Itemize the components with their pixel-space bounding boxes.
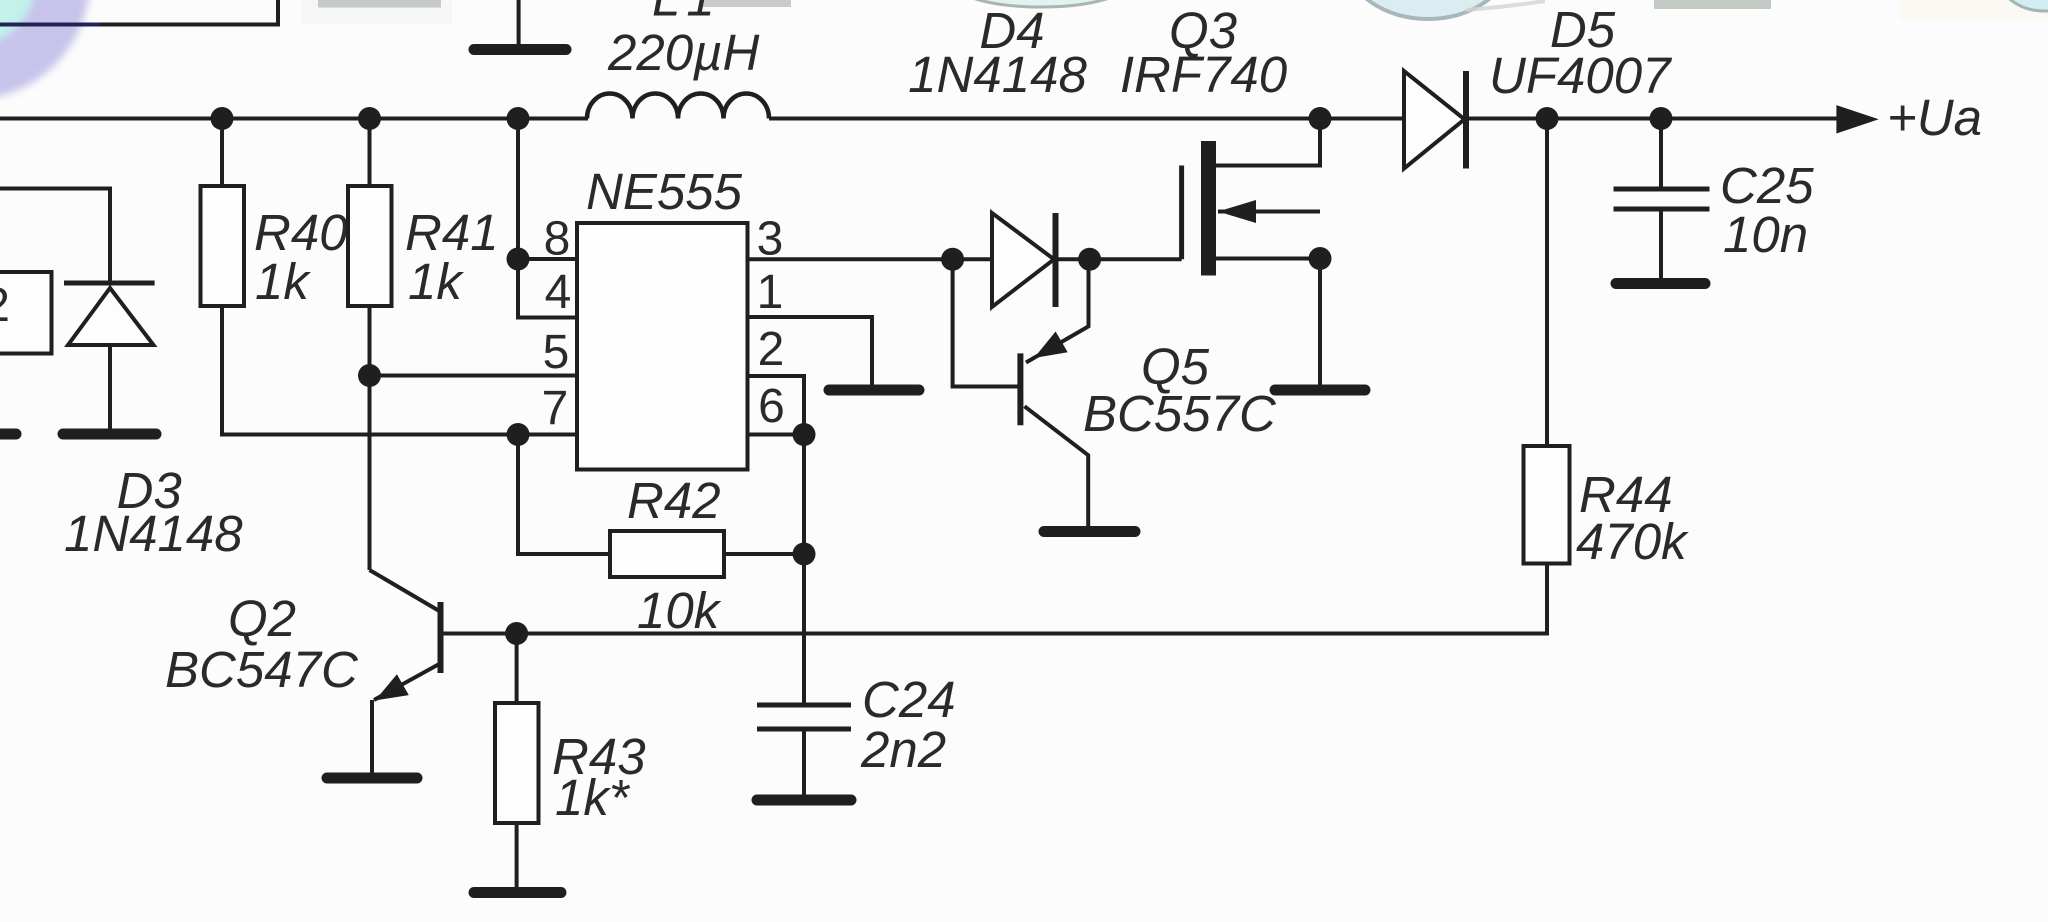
ground pin1 [829, 385, 919, 396]
label R41 [405, 204, 499, 261]
gray bar top 2 [700, 0, 791, 7]
watermark ellipse circle 1 [955, 0, 1127, 7]
gray bar top 3 [1654, 0, 1771, 9]
wire D3 top lead [0, 189, 110, 284]
junction Q3 source [1309, 247, 1332, 270]
svg-text:1N4148: 1N4148 [908, 46, 1087, 103]
wire pin6 stub [748, 433, 805, 437]
value 470k [1576, 513, 1689, 570]
junction pin8 [507, 248, 530, 271]
label Q5 [1141, 338, 1210, 395]
diode D3 [64, 283, 155, 345]
resistor R41 [348, 186, 392, 306]
ground R43 [474, 887, 561, 898]
svg-text:4: 4 [545, 266, 572, 319]
transistor Q3 IRF740 MOSFET [1182, 119, 1320, 386]
value 10k [637, 582, 722, 639]
value 1N4148 (D3) [64, 505, 243, 562]
wire main rail right section to arrow [1466, 117, 1840, 121]
svg-text:1k: 1k [255, 253, 311, 310]
value IRF740 [1120, 46, 1287, 103]
value 10n [1723, 206, 1808, 263]
wire pin2 to pin6 to C24 [748, 376, 805, 705]
svg-text:R42: R42 [627, 472, 721, 529]
label L1 [652, 0, 721, 27]
svg-text:2: 2 [0, 279, 10, 332]
svg-text:1N4148: 1N4148 [64, 505, 243, 562]
wire top ground lead [517, 0, 521, 44]
pin 4 label [545, 266, 572, 319]
box partial IC left edge [0, 272, 52, 354]
junction R43 top / Q2 base [505, 622, 528, 645]
junction R41 / pin5 [358, 364, 381, 387]
ground Q2 emitter [327, 773, 417, 784]
inductor L1 [587, 93, 769, 118]
wire D3 bottom lead [108, 345, 112, 429]
wire R40 top lead [220, 119, 224, 187]
label R43 [552, 728, 646, 785]
wire D4 cathode to Q3 gate [1056, 257, 1182, 261]
pin 5 label [543, 326, 570, 379]
watermark ellipse circle 2 [1346, 0, 1545, 19]
label C24 [862, 671, 956, 728]
svg-text:1: 1 [757, 266, 784, 319]
gray bar top 1 [302, 0, 452, 24]
junction rail / R41 top [358, 107, 381, 130]
label R44 [1579, 466, 1673, 523]
label R42 [627, 472, 721, 529]
junction D4 cathode / Q5 emitter [1078, 248, 1101, 271]
junction pin7 / R42 left [507, 423, 530, 446]
svg-text:220µH: 220µH [607, 24, 759, 81]
pin 1 label [757, 266, 784, 319]
wire pin3 output line [748, 257, 993, 261]
watermark rainbow corner arcs [0, 0, 63, 73]
pin 3 label [757, 213, 784, 266]
ground top-center [474, 44, 566, 55]
svg-text:UF4007: UF4007 [1489, 47, 1672, 104]
junction rail / Q3 drain [1309, 107, 1332, 130]
svg-text:1k*: 1k* [555, 769, 631, 826]
wire R40 bottom lead to pin7 line [222, 306, 577, 435]
value BC557C [1083, 385, 1277, 442]
value 1N4148 (D4) [908, 46, 1087, 103]
svg-text:+Ua: +Ua [1887, 89, 1982, 146]
wire R44 bottom to Q2 base line [441, 564, 1547, 634]
value 2n2 [860, 721, 946, 778]
svg-text:8: 8 [544, 213, 571, 266]
pin 8 label [544, 213, 571, 266]
resistor R44 [1524, 446, 1570, 564]
ground Q5 collector [1044, 526, 1135, 537]
svg-text:NE555: NE555 [586, 163, 743, 220]
diode D4 [992, 213, 1056, 307]
wire R42 right lead [724, 552, 804, 556]
junction rail / D5 cathode [1536, 107, 1559, 130]
svg-text:L1: L1 [652, 0, 721, 27]
diode D5 [1404, 71, 1466, 169]
label NE555 [586, 163, 743, 220]
transistor Q2 BC547C [370, 570, 442, 773]
wire main +Ua rail left section [0, 117, 588, 121]
svg-text:5: 5 [543, 326, 570, 379]
pin 2 partial label left box [0, 279, 10, 332]
wire rail to pin8/pin4 [518, 119, 577, 318]
capacitor C24 [757, 705, 851, 729]
label D5 [1550, 1, 1616, 58]
label Q3 [1169, 2, 1237, 59]
wire R43 bottom lead [515, 823, 519, 888]
ground C24 [757, 795, 851, 806]
value 1k (R40) [255, 253, 311, 310]
svg-text:IRF740: IRF740 [1120, 46, 1287, 103]
pin 2 label [758, 323, 785, 376]
resistor R42 [610, 531, 724, 577]
value 1k* [555, 769, 631, 826]
resistor R40 [201, 186, 245, 306]
ground C25 [1616, 278, 1705, 289]
value 220µH [607, 24, 759, 81]
junction D4 anode / Q5 base feed [941, 248, 964, 271]
value UF4007 [1489, 47, 1672, 104]
svg-text:2n2: 2n2 [860, 721, 946, 778]
junction R42 right / C24 [793, 543, 816, 566]
ground D3 [63, 429, 156, 440]
watermark ellipse circle 3 top-right [1900, 0, 2048, 20]
capacitor C25 [1614, 189, 1710, 209]
ground stub left edge [0, 429, 16, 440]
svg-text:BC557C: BC557C [1083, 385, 1277, 442]
wire R43 top lead [515, 634, 519, 704]
wire C25 bottom lead [1659, 209, 1663, 278]
wire R41 top lead [368, 119, 372, 187]
value 1k (R41) [408, 253, 464, 310]
label R40 [254, 204, 348, 261]
resistor R43 [495, 703, 539, 823]
transistor Q5 BC557C [1020, 259, 1088, 526]
junction rail / R40 top [211, 107, 234, 130]
wire R42 left lead [518, 435, 610, 555]
wire C24 bottom lead [802, 729, 806, 795]
svg-text:10n: 10n [1723, 206, 1808, 263]
op-amp U1 NE555 body [577, 223, 748, 470]
pin 7 label [542, 382, 569, 435]
net label +Ua [1887, 89, 1982, 146]
svg-text:10k: 10k [637, 582, 722, 639]
svg-text:1k: 1k [408, 253, 464, 310]
wire pin1 to ground [748, 317, 873, 385]
wire R41 bottom lead down to Q2 collector [368, 306, 372, 570]
wire Q5 base lead [953, 259, 1018, 386]
wire partial box top-left [0, 0, 278, 25]
wire pin8 stub [518, 257, 577, 261]
svg-text:7: 7 [542, 382, 569, 435]
svg-text:470k: 470k [1576, 513, 1689, 570]
svg-text:2: 2 [758, 323, 785, 376]
wire R44 top lead [1545, 119, 1549, 447]
svg-text:C24: C24 [862, 671, 956, 728]
svg-text:BC547C: BC547C [165, 641, 359, 698]
ground Q3 source [1275, 385, 1365, 396]
svg-text:Q2: Q2 [228, 590, 296, 647]
svg-text:6: 6 [758, 380, 785, 433]
wire navy overlay through watermark [0, 23, 100, 27]
pin 6 label [758, 380, 785, 433]
label Q2 [228, 590, 296, 647]
label D4 [979, 2, 1044, 59]
junction rail / pin8 feed [507, 107, 530, 130]
wire C25 top lead [1659, 119, 1663, 190]
label D3 [117, 462, 182, 519]
junction rail / C25 top [1650, 107, 1673, 130]
junction pin6 [793, 423, 816, 446]
value BC547C [165, 641, 359, 698]
+Ua output arrow [1836, 105, 1878, 133]
wire pin5 line [370, 374, 578, 378]
wire main rail middle section [769, 117, 1404, 121]
label C25 [1720, 157, 1814, 214]
